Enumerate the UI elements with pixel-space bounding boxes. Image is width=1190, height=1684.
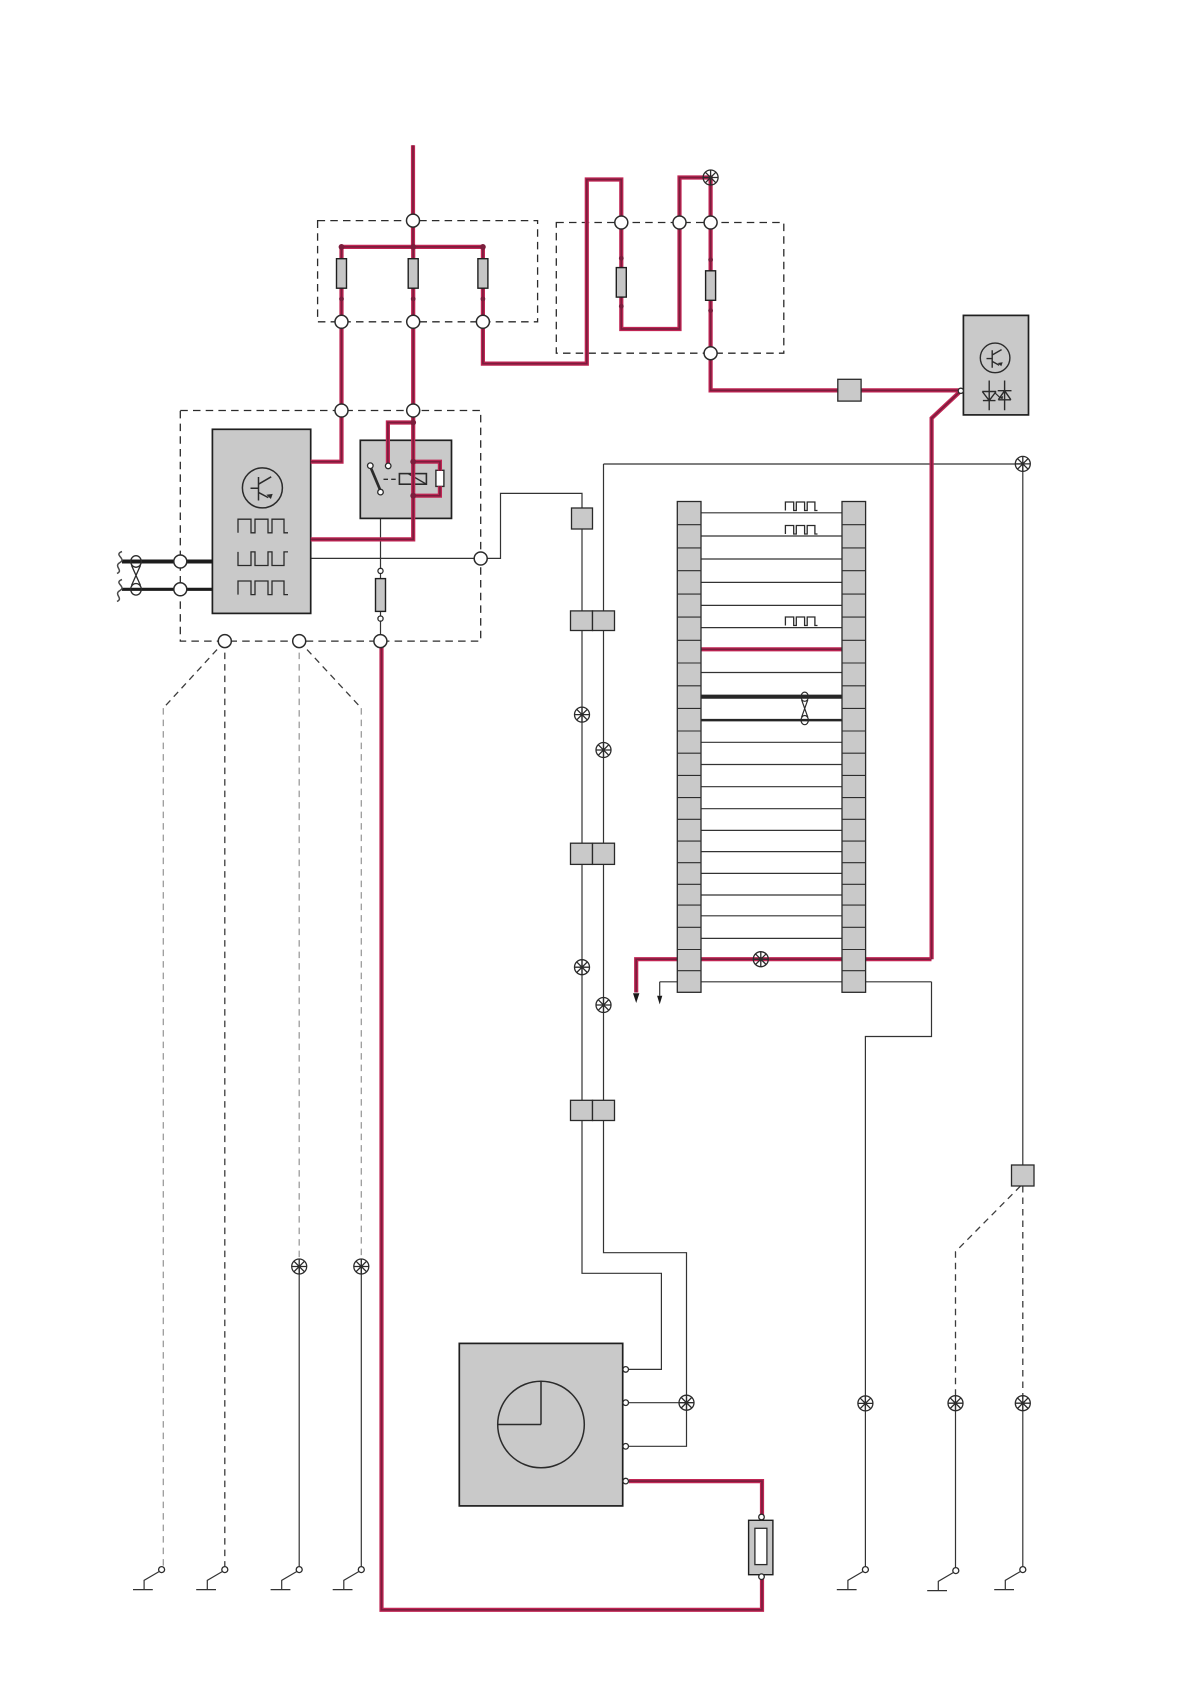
splice on red wire at top right: [703, 170, 718, 185]
element matrix right connector column: [842, 502, 866, 993]
fuse 4 upper pin dot: [619, 256, 624, 261]
in-line fuse upper pin: [378, 568, 383, 573]
heater element matrix rows (thin wires): [701, 513, 842, 939]
connector block on signal wire (single): [572, 508, 593, 529]
red wire fuse 1 to control unit pin: [311, 247, 342, 462]
transistor symbol in electronic unit: [980, 343, 1010, 373]
ground G6: [927, 1568, 959, 1591]
connector block pair 3 on signal wires: [571, 1100, 593, 1120]
fuse 5 upper pin dot: [708, 257, 713, 262]
relay switch upper pin: [368, 463, 374, 469]
connector below fuse 3: [476, 315, 489, 328]
matrix bottom signal row wire: [660, 981, 932, 983]
wire continuation squiggle (lower): [117, 580, 122, 602]
signal wire across top to right connector block: [604, 464, 1023, 1165]
ground G3: [271, 1567, 303, 1590]
splice on signal wire 1 (upper): [575, 707, 590, 722]
red branch wire to resistor top: [413, 462, 440, 471]
signal wire to clock pin 3: [604, 464, 687, 1446]
wire splice to ground G7: [1022, 1403, 1024, 1566]
clock face symbol: [498, 1381, 585, 1468]
red supply row inside element matrix: [701, 647, 842, 651]
control unit A1 (gray box): [212, 429, 310, 613]
fuse 1 in box F1: [337, 259, 347, 289]
ground G7: [994, 1567, 1026, 1590]
connector below fuse 1: [335, 315, 348, 328]
ground G1: [133, 1567, 165, 1590]
ground G4: [333, 1567, 365, 1590]
connector at enclosure bottom 1: [218, 635, 231, 648]
wire continuation squiggle (upper): [117, 552, 122, 574]
square-wave glyph 1 in control unit: [238, 519, 288, 533]
connector block pair 2 on signal wires: [571, 843, 593, 864]
splice on signal wire 2 (upper): [596, 743, 611, 758]
clock pin 3: [623, 1444, 629, 1450]
connector at box F2 top (fuse 5): [704, 216, 717, 229]
in-line fuse holder at clock output: [749, 1520, 773, 1574]
dashed wire from connector to ground G4: [299, 641, 361, 708]
connector block pair 1 on signal wires: [571, 611, 593, 631]
fuse 4 lower pin dot: [619, 304, 624, 309]
connector at enclosure left (upper black wire): [174, 555, 187, 568]
relay actuation link (dashed): [384, 478, 399, 480]
fuse 4 in box F2: [616, 268, 626, 298]
wire splice to ground G4: [360, 1267, 362, 1567]
splice on signal wire 1 (lower): [575, 960, 590, 975]
junction at coil top: [410, 459, 416, 465]
splice above ground G6: [948, 1396, 963, 1411]
splice above ground G3: [292, 1259, 307, 1274]
fuse box F1 (dashed outline, top left): [318, 221, 538, 322]
red branch wire to relay coil control pin: [388, 423, 413, 464]
signal wire from matrix to ground G5: [865, 982, 931, 1567]
square-wave glyph above matrix row 6: [785, 617, 817, 626]
clock pin 1: [623, 1367, 629, 1373]
fuse 5 in box F2: [706, 271, 716, 301]
ground G5: [837, 1567, 869, 1590]
thick black wire to control unit (upper): [122, 560, 212, 564]
fuse box F2 (dashed outline, top right): [556, 223, 784, 354]
connector on feed wire at box F1 top: [407, 214, 420, 227]
connector at enclosure top (relay feed): [407, 404, 420, 417]
red bus bar in fuse box F1: [342, 245, 483, 249]
in-line fuse holder upper pin: [759, 1514, 765, 1520]
element matrix left connector column: [677, 502, 701, 993]
dashed wire to splice above ground G3: [298, 641, 300, 1262]
splice above ground G5: [858, 1396, 873, 1411]
in-line fuse holder lower pin: [759, 1574, 765, 1580]
dashed branch wire to splice: [956, 1186, 1021, 1399]
junction at coil bottom: [410, 493, 416, 499]
junction bus / fuse 2: [410, 244, 416, 250]
relay switch lower pin: [378, 489, 384, 495]
fuse 1 lower pin dot: [339, 297, 344, 302]
connector at box F2 top (fuse 4): [615, 216, 628, 229]
fuse 3 lower pin dot: [481, 297, 486, 302]
electronic unit with thyristors (gray box, top right): [963, 315, 1028, 415]
red wire fuse 2 through relay to control unit pin: [311, 247, 414, 540]
main red feed wire from top: [411, 145, 415, 247]
signal wire from control unit to clock pin 1: [311, 493, 662, 1369]
square-wave glyph above matrix row 2: [785, 526, 817, 535]
relay coil control pin: [385, 463, 391, 469]
in-line fuse lower pin: [378, 616, 383, 621]
relay switch output wire to in-line fuse: [380, 495, 382, 639]
continuation arrow on red wire: [633, 993, 639, 1003]
connector block on right ground wire: [1012, 1165, 1035, 1186]
clock pin 2 wire to splice: [627, 1402, 687, 1404]
red feed wire across matrix bottom to continuation arrow: [636, 959, 931, 992]
fuse 2 in box F1: [408, 259, 418, 289]
fuse 2 lower pin dot: [411, 297, 416, 302]
connector at box F2 top (return): [673, 216, 686, 229]
connector at enclosure left (lower black wire): [174, 583, 187, 596]
twisted pair symbol on black wires: [131, 556, 142, 595]
twisted pair symbol between black matrix rows: [801, 692, 808, 725]
dashed wire below connector block to splice: [1022, 1186, 1024, 1399]
relay switch feed stub: [369, 440, 371, 463]
splice above ground G7: [1015, 1396, 1030, 1411]
connector below fuse 2: [407, 315, 420, 328]
dashed wire to splice above ground G4: [360, 708, 362, 1262]
splice above ground G4: [354, 1259, 369, 1274]
electronic unit input pin: [958, 388, 963, 393]
red wire electronic unit down to matrix row: [932, 391, 961, 959]
connector at enclosure bottom 3 (red output): [374, 635, 387, 648]
junction at relay branch: [410, 420, 416, 426]
thick black wire to control unit (lower): [122, 588, 212, 591]
connector at enclosure top (wire to unit pin): [335, 404, 348, 417]
connector at box F2 bottom: [704, 347, 717, 360]
wire splice to ground G6: [955, 1403, 957, 1567]
red branch wire from resistor bottom: [413, 486, 440, 496]
dashed wire to ground G2: [224, 641, 226, 1566]
ground G2: [196, 1567, 228, 1590]
relay K1 (gray box): [360, 440, 451, 518]
connector at enclosure bottom 2: [293, 635, 306, 648]
junction bus / fuse 1: [339, 244, 345, 250]
dashed wire from connector to ground G1: [163, 641, 225, 708]
splice on signal wire 2 (lower): [596, 998, 611, 1013]
continuation arrow on signal wire: [657, 996, 662, 1005]
square-wave glyph 3 in control unit: [238, 581, 288, 595]
connector at enclosure right (signal wire): [474, 552, 487, 565]
signal wire stub to continuation arrow: [659, 982, 661, 996]
red wire clock pin 4 through in-line fuse to relay output: [382, 644, 763, 1610]
relay economy resistor: [436, 470, 444, 486]
in-line fuse below relay: [376, 579, 386, 612]
clock pin 2: [623, 1400, 629, 1406]
splice on red matrix feed row: [753, 952, 768, 967]
relay coil: [399, 474, 426, 485]
fuse 5 lower pin dot: [708, 308, 713, 313]
thick black row wire 2 in matrix: [701, 719, 842, 722]
control unit enclosure (dashed outline): [180, 411, 480, 642]
red wire fuse 3 through fuse box F2 to electronic unit: [483, 178, 961, 391]
clock module (gray box): [459, 1343, 622, 1506]
fuse 3 in box F1: [478, 259, 488, 289]
dashed wire to ground G1 (vertical): [162, 708, 164, 1566]
splice joining clock pin 2 wire: [679, 1395, 694, 1410]
clock pin 4: [623, 1478, 629, 1484]
connector block on red feed wire (top right): [838, 379, 861, 401]
relay switch contact (movable blade): [371, 468, 380, 490]
square-wave glyph 2 in control unit: [238, 552, 288, 566]
transistor symbol in control unit A1: [242, 468, 282, 508]
wire splice to ground G3: [298, 1267, 300, 1567]
thyristor pair symbol in electronic unit: [982, 381, 1011, 411]
splice at end of top signal wire: [1015, 456, 1030, 471]
thick black row wire 1 in matrix: [701, 695, 842, 699]
square-wave glyph above matrix row 1: [785, 502, 817, 511]
junction bus / fuse 3: [480, 244, 486, 250]
